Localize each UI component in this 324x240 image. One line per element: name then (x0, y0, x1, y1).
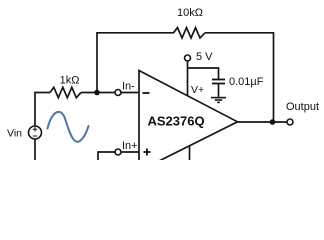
svg-text:In-: In- (122, 81, 135, 93)
svg-text:Output: Output (286, 101, 319, 113)
wire Vin bottom lead (34, 139, 36, 160)
wire op-amp V- pin down off-page (189, 145, 191, 160)
svg-text:10kΩ: 10kΩ (177, 7, 203, 19)
terminal 5V supply (185, 55, 191, 61)
wire In- terminal to op-amp inverting input (121, 92, 139, 94)
ground (211, 98, 226, 103)
terminal In+ (115, 149, 121, 155)
svg-text:V+: V+ (191, 84, 204, 96)
resistor R2 10kΩ (174, 28, 206, 38)
op-amp noninverting input plus sign (144, 149, 151, 156)
wire In+ branch from bottom (98, 152, 115, 160)
wire branch to bypass capacitor (188, 68, 219, 79)
svg-text:Vin: Vin (7, 128, 22, 140)
wire feedback left vertical and top-left segment (97, 33, 174, 93)
wire In+ terminal to op-amp noninverting input (121, 151, 139, 153)
svg-text:AS2376Q: AS2376Q (148, 114, 205, 129)
wire from Vin up to 1kΩ row (35, 93, 50, 127)
wire 1kΩ to In- terminal (81, 92, 115, 94)
svg-text:In+: In+ (122, 140, 138, 152)
sine wave symbol (48, 112, 89, 142)
terminal Output (287, 119, 293, 125)
capacitor C1 (212, 80, 225, 84)
voltage source V1 Vin (29, 126, 42, 139)
wire capacitor to ground (218, 84, 220, 97)
node junction at inverting input (94, 90, 100, 96)
terminal In- (115, 90, 121, 96)
svg-text:0.01µF: 0.01µF (229, 76, 264, 88)
wire op-amp output to Output terminal (238, 121, 288, 123)
wire 5V supply down to op-amp V+ (187, 61, 189, 96)
svg-text:5 V: 5 V (196, 51, 213, 63)
node junction at output (270, 119, 276, 125)
resistor R1 1kΩ (50, 87, 81, 97)
svg-text:1kΩ: 1kΩ (60, 75, 80, 87)
op-amp U1 AS2376Q triangle (139, 71, 238, 172)
wire top-right segment and feedback right vertical (205, 33, 274, 122)
op-amp inverting input minus sign (143, 92, 150, 94)
